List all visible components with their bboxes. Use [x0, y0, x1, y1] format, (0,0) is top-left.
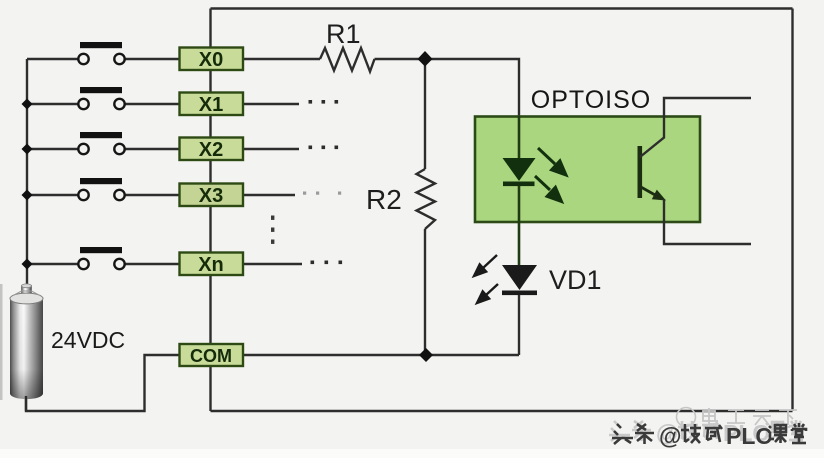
- pushbutton S1: [78, 87, 124, 109]
- wire row X2 left: [27, 148, 79, 150]
- svg-text:X1: X1: [199, 94, 223, 116]
- wire COM return to battery: [26, 355, 179, 411]
- continuation dots row Xn: [311, 261, 343, 265]
- svg-text:X2: X2: [199, 139, 223, 161]
- terminal box COM: [180, 344, 244, 366]
- continuation dots row X2: [309, 146, 339, 150]
- junction B dot: [419, 348, 433, 362]
- wire input terminal rail: [209, 9, 211, 412]
- wire X3 stub: [243, 194, 295, 196]
- watermark headline toutiao: [612, 423, 806, 449]
- pushbutton S2: [78, 132, 124, 154]
- continuation dots row X1: [309, 100, 339, 104]
- wire row Xn left: [27, 263, 79, 265]
- emission arrow VD1 a: [474, 255, 497, 276]
- bus junction X3: [22, 190, 33, 201]
- svg-text:R1: R1: [326, 19, 361, 49]
- wire X0 to R1: [243, 58, 320, 60]
- wire emitter output: [664, 199, 751, 244]
- phototransistor Q1 base bar: [638, 146, 643, 198]
- light emission arrow 2: [535, 176, 562, 202]
- bus junction X2: [22, 144, 33, 155]
- wire row X2 right: [125, 148, 179, 150]
- LED of optocoupler: [503, 158, 536, 186]
- terminal box X0: [180, 48, 244, 72]
- bus junction Xn: [22, 259, 33, 270]
- pushbutton Sn: [78, 247, 124, 269]
- wire row Xn right: [125, 263, 179, 265]
- wire emitter: [640, 187, 666, 201]
- wire 24V bus: [26, 59, 28, 288]
- junction A dot: [418, 51, 433, 67]
- terminal box X3: [180, 184, 244, 208]
- resistor R1: [320, 48, 375, 72]
- optocoupler U1 package: [475, 117, 700, 223]
- terminal box Xn: [180, 253, 244, 277]
- terminal box X2: [180, 138, 244, 162]
- resistor R2: [417, 169, 436, 229]
- wire junction A to LED branch: [425, 59, 519, 118]
- wire right border: [791, 9, 793, 412]
- svg-text:R2: R2: [366, 184, 402, 215]
- wire R1 to junction A: [375, 58, 426, 60]
- continuation dots row X3 (faint): [303, 192, 341, 195]
- pushbutton S3: [78, 178, 124, 200]
- bus junction X1: [22, 99, 33, 110]
- scan artifact left edge: [0, 284, 3, 400]
- wire row X0 right: [125, 58, 179, 60]
- wire row X0 left: [27, 58, 79, 60]
- wire R2 upper: [424, 59, 426, 169]
- wire top rail: [211, 7, 793, 9]
- vertical ellipsis between X3 and Xn: [271, 216, 274, 244]
- wire LED cathode: [518, 186, 521, 265]
- watermark headline ghost: [609, 420, 803, 446]
- svg-text:COM: COM: [190, 346, 232, 366]
- wire row X3 right: [125, 194, 179, 196]
- svg-text:VD1: VD1: [549, 265, 602, 295]
- pushbutton S0: [78, 42, 124, 64]
- wire X2 stub: [243, 148, 299, 150]
- LED VD1: [502, 265, 537, 295]
- terminal box X1: [180, 93, 244, 117]
- battery BT1 24VDC: [10, 284, 43, 399]
- watermark faint text dianggong tianxia: [703, 408, 797, 425]
- wire COM to junction B: [243, 354, 519, 356]
- wire VD1 cathode: [518, 295, 520, 355]
- wire battery negative lead: [25, 396, 27, 411]
- light emission arrow 1: [538, 148, 566, 175]
- wire row X1 left: [27, 103, 79, 105]
- wire row X3 left: [27, 194, 79, 196]
- wire Xn stub: [243, 263, 302, 265]
- wire collector: [640, 98, 751, 157]
- svg-text:24VDC: 24VDC: [51, 327, 125, 353]
- watermark faint stamp circle: [677, 408, 696, 427]
- wire X1 stub: [243, 103, 299, 105]
- wire R2 lower: [424, 229, 426, 355]
- svg-text:Xn: Xn: [198, 254, 224, 276]
- wire LED anode: [518, 116, 521, 160]
- wire bottom rail: [211, 410, 793, 412]
- emission arrow VD1 b: [477, 284, 498, 303]
- svg-text:OPTOISO: OPTOISO: [531, 86, 651, 114]
- svg-text:X0: X0: [199, 49, 223, 71]
- svg-text:X3: X3: [199, 185, 223, 207]
- wire row X1 right: [125, 103, 179, 105]
